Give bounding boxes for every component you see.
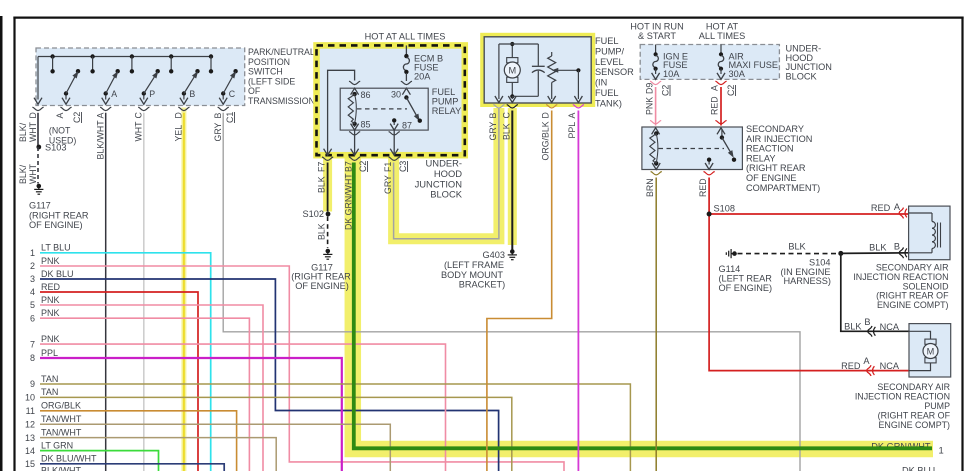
svg-text:G403: G403 [483,250,505,260]
svg-text:BRACKET): BRACKET) [459,280,505,290]
svg-text:FUEL: FUEL [432,87,456,97]
svg-text:(LEFT SIDE: (LEFT SIDE [248,76,295,86]
svg-text:(RIGHT REAR: (RIGHT REAR [29,210,89,220]
svg-text:A: A [96,113,106,119]
svg-text:OF ENGINE): OF ENGINE) [295,281,349,291]
svg-text:30: 30 [391,90,401,100]
svg-text:BLK: BLK [317,223,327,240]
svg-text:FUEL: FUEL [595,88,619,98]
svg-text:F1: F1 [383,162,393,172]
svg-text:BLK: BLK [502,123,512,140]
svg-text:3: 3 [30,274,35,284]
svg-text:ORG/BLK: ORG/BLK [41,401,81,411]
svg-text:PPL: PPL [567,122,577,139]
svg-text:1: 1 [939,445,944,456]
svg-text:(LEFT FRAME: (LEFT FRAME [444,260,504,270]
svg-text:WHT: WHT [28,163,38,184]
svg-text:M: M [927,346,935,356]
svg-text:C: C [134,112,144,119]
svg-text:ORG/BLK: ORG/BLK [541,121,551,160]
svg-text:REACTION: REACTION [746,144,793,154]
svg-text:UNDER-: UNDER- [426,158,462,169]
svg-text:(IN: (IN [595,78,607,88]
svg-text:PUMP/: PUMP/ [595,46,625,56]
svg-text:LT BLU: LT BLU [41,243,71,253]
svg-text:JUNCTION: JUNCTION [415,178,462,189]
svg-text:BLOCK: BLOCK [786,71,818,81]
svg-text:C: C [502,112,512,119]
svg-text:GRY: GRY [383,175,393,194]
svg-text:S102: S102 [303,209,324,219]
svg-text:PUMP: PUMP [924,401,950,411]
svg-text:(RIGHT REAR OF: (RIGHT REAR OF [878,411,951,421]
svg-text:B: B [864,317,870,327]
svg-text:HOT AT ALL TIMES: HOT AT ALL TIMES [365,32,446,42]
svg-text:OF: OF [248,86,261,96]
svg-text:HOT IN RUN: HOT IN RUN [630,22,683,32]
svg-text:DK BLU/WHT: DK BLU/WHT [41,454,97,464]
svg-text:WHT: WHT [28,121,38,142]
svg-text:7: 7 [30,339,35,349]
svg-text:S108: S108 [714,204,735,214]
svg-text:BLK: BLK [869,243,887,253]
svg-text:NCA: NCA [880,361,900,371]
svg-text:BLK: BLK [317,176,327,193]
svg-text:LEVEL: LEVEL [595,57,624,67]
svg-text:P: P [149,89,155,99]
svg-text:AIR INJECTION: AIR INJECTION [746,134,812,144]
svg-text:GRY: GRY [488,121,498,140]
svg-text:SENSOR: SENSOR [595,67,634,77]
svg-text:4: 4 [30,287,35,297]
svg-text:1: 1 [30,248,35,258]
svg-text:TANK): TANK) [595,98,622,108]
svg-text:TAN/WHT: TAN/WHT [41,414,82,424]
svg-text:S103: S103 [45,143,66,153]
svg-text:PNK: PNK [41,334,60,344]
svg-text:PARK/NEUTRAL: PARK/NEUTRAL [248,47,315,57]
svg-text:WHT: WHT [134,121,144,142]
svg-text:D: D [541,112,551,118]
svg-text:30A: 30A [729,69,746,79]
svg-text:PNK: PNK [645,97,655,115]
svg-text:BLK/: BLK/ [18,164,28,184]
svg-text:A: A [710,85,720,91]
svg-text:G114: G114 [719,264,741,274]
svg-text:87: 87 [402,120,412,130]
svg-text:10: 10 [25,393,35,403]
svg-text:RED: RED [41,282,61,292]
svg-text:ALL TIMES: ALL TIMES [699,31,745,41]
svg-text:D9: D9 [645,83,655,94]
svg-text:9: 9 [30,379,35,389]
svg-text:TAN/WHT: TAN/WHT [41,427,82,437]
svg-text:POSITION: POSITION [248,57,290,67]
svg-text:A: A [567,113,577,119]
svg-text:BLOCK: BLOCK [430,189,463,200]
svg-text:PUMP: PUMP [432,96,459,106]
svg-text:A: A [55,113,65,119]
svg-text:BODY MOUNT: BODY MOUNT [441,270,503,280]
svg-text:RED: RED [710,96,720,115]
svg-text:A: A [894,202,901,212]
svg-text:SWITCH: SWITCH [248,67,283,77]
svg-text:NCA: NCA [880,322,900,332]
svg-text:8: 8 [30,353,35,363]
svg-text:BLK/WHT: BLK/WHT [96,120,106,160]
svg-text:HOT AT: HOT AT [706,22,739,32]
svg-text:HARNESS): HARNESS) [784,276,831,286]
svg-text:PNK: PNK [41,295,60,305]
svg-text:BLK: BLK [844,322,862,332]
svg-text:RED: RED [841,361,861,371]
svg-text:86: 86 [361,90,371,100]
svg-text:C: C [229,89,236,99]
svg-text:& START: & START [638,31,676,41]
svg-text:C1: C1 [225,112,235,123]
svg-text:6: 6 [30,313,35,323]
svg-text:C3: C3 [398,161,408,172]
svg-text:C2: C2 [358,161,368,172]
svg-text:(LEFT REAR: (LEFT REAR [719,274,773,284]
svg-text:OF ENGINE): OF ENGINE) [719,283,773,293]
svg-text:INJECTION REACTION: INJECTION REACTION [855,392,950,402]
svg-text:RELAY: RELAY [432,106,461,116]
svg-text:D: D [28,112,38,118]
svg-text:B: B [488,113,498,119]
svg-text:F7: F7 [317,162,327,172]
svg-text:10A: 10A [663,69,680,79]
svg-text:B: B [894,242,900,252]
svg-text:YEL: YEL [174,125,184,142]
svg-text:13: 13 [25,433,35,443]
svg-text:15: 15 [25,459,35,469]
svg-text:C2: C2 [661,85,671,96]
svg-text:SECONDARY AIR: SECONDARY AIR [877,382,950,392]
svg-text:PNK: PNK [41,308,60,318]
svg-text:DK BLU: DK BLU [41,269,74,279]
svg-text:14: 14 [25,446,35,456]
svg-text:TAN: TAN [41,387,58,397]
svg-text:C2: C2 [72,112,82,123]
svg-text:DK BLU: DK BLU [902,466,935,471]
svg-text:B: B [189,89,195,99]
svg-text:(RIGHT REAR: (RIGHT REAR [746,163,806,173]
svg-text:85: 85 [361,120,371,130]
svg-text:C2: C2 [726,85,736,96]
svg-text:RED: RED [871,203,891,213]
svg-text:SECONDARY: SECONDARY [746,124,804,134]
svg-text:ENGINE COMPT): ENGINE COMPT) [877,300,949,310]
svg-text:OF ENGINE): OF ENGINE) [29,220,83,230]
svg-text:LT GRN: LT GRN [41,440,73,450]
svg-text:M: M [508,65,516,75]
svg-text:ENGINE COMPT): ENGINE COMPT) [879,420,951,430]
svg-text:BLK/WHT: BLK/WHT [41,466,82,471]
svg-text:COMPARTMENT): COMPARTMENT) [746,183,820,193]
svg-text:PPL: PPL [41,348,58,358]
svg-text:OF ENGINE: OF ENGINE [746,173,797,183]
svg-text:BRN: BRN [645,178,655,197]
svg-text:5: 5 [30,300,35,310]
svg-text:GRY: GRY [213,122,223,141]
svg-text:B: B [213,113,223,119]
svg-text:G117: G117 [29,201,51,211]
svg-text:BLK/: BLK/ [18,122,28,142]
svg-text:2: 2 [30,261,35,271]
svg-text:TAN: TAN [41,374,58,384]
svg-text:D: D [174,112,184,118]
svg-text:12: 12 [25,420,35,430]
svg-text:FUEL: FUEL [595,36,619,46]
svg-text:BLK: BLK [788,242,806,252]
svg-text:A: A [111,89,117,99]
svg-text:A: A [863,356,870,366]
svg-text:20A: 20A [414,72,431,82]
svg-text:HOOD: HOOD [434,168,462,179]
svg-text:TRANSMISSION): TRANSMISSION) [248,96,318,106]
svg-text:RELAY: RELAY [746,153,775,163]
svg-text:RED: RED [698,178,708,197]
svg-text:11: 11 [26,406,35,416]
svg-text:(NOT: (NOT [49,126,71,136]
svg-text:PNK: PNK [41,256,60,266]
